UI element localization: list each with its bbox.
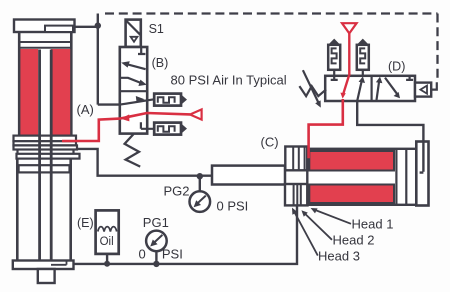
valve B pos1 arrow left <box>125 64 145 69</box>
muffler 4 (valve D right exhaust) <box>357 39 369 76</box>
red wire valve D to cylinder C <box>309 99 343 158</box>
svg-text:0: 0 <box>139 247 146 262</box>
red air inlet line <box>62 113 190 141</box>
cylinder C red chamber lower <box>309 185 394 204</box>
wire tank A to PG2 and cylinder C rod <box>76 149 212 176</box>
valve B blocked port T (bottom right) <box>141 122 154 129</box>
cylinder C gland lines <box>396 149 406 205</box>
svg-text:0 PSI: 0 PSI <box>217 199 249 214</box>
cylinder C body <box>307 149 416 205</box>
bottom return wire <box>74 205 298 264</box>
muffler 2 box <box>154 123 187 135</box>
cylinder C red chamber upper <box>309 151 394 171</box>
wire tank A cap to node <box>73 26 98 28</box>
valve D pilot actuator box <box>415 83 431 97</box>
junction dot PG2 <box>197 173 203 179</box>
svg-text:(A): (A) <box>77 102 94 117</box>
gauge PG1 <box>146 231 167 264</box>
air inlet triangle <box>190 109 202 119</box>
oil reservoir stem <box>106 254 108 264</box>
black wire valve D to cylinder C cap <box>357 101 423 173</box>
tank A red oil fill right <box>51 49 70 136</box>
red supply triangle (valve D) <box>342 23 357 33</box>
valve D pos1 up arrow <box>357 80 362 101</box>
red inlet arrowhead <box>121 114 130 121</box>
valve D divider <box>371 76 373 101</box>
valve B return spring <box>125 134 141 167</box>
oil reservoir E box <box>96 210 119 254</box>
dashed control enclosure <box>105 14 438 81</box>
piston rod (full length) <box>40 50 52 270</box>
svg-text:Head 2: Head 2 <box>333 233 375 248</box>
muffler 3 (valve D left exhaust) <box>328 39 340 76</box>
svg-text:PG1: PG1 <box>143 215 169 230</box>
tank A barrel walls <box>19 32 71 136</box>
svg-text:(E): (E) <box>77 216 94 230</box>
valve D pos2 down arrow <box>385 78 398 96</box>
svg-text:PG2: PG2 <box>164 184 190 199</box>
cylinder C lower head block <box>285 184 308 205</box>
junction dot PG1 <box>153 261 159 267</box>
red supply line into valve D <box>348 33 350 75</box>
valve D adjustment arrow <box>303 70 319 103</box>
gauge PG2 <box>190 176 211 212</box>
tank A / cylinder plate stack <box>14 136 80 159</box>
svg-text:(D): (D) <box>388 60 405 74</box>
cylinder C rod bar <box>212 166 285 185</box>
valve B blocked port T (top right) <box>138 47 145 54</box>
valve S1 solenoid box <box>126 20 141 47</box>
head leader arrow 1 <box>314 209 351 223</box>
svg-text:S1: S1 <box>149 22 164 36</box>
valve B body <box>120 47 147 134</box>
svg-text:Head 1: Head 1 <box>352 217 394 232</box>
valve D blocked port T top-left <box>331 76 338 80</box>
cylinder C end cap <box>416 142 428 206</box>
head leader arrow 3 <box>294 211 318 256</box>
svg-text:PSI: PSI <box>162 247 183 262</box>
tank A interior band lines <box>21 42 71 48</box>
oil junction dot <box>104 261 110 267</box>
red flow through valve D <box>343 76 349 96</box>
tank A red oil fill left <box>20 49 38 136</box>
cylinder C upper head block <box>285 147 307 171</box>
svg-text:(C): (C) <box>261 135 279 150</box>
svg-text:80 PSI Air In Typical: 80 PSI Air In Typical <box>171 73 287 88</box>
valve D pilot wire <box>431 82 437 89</box>
valve D pos2 up arrow <box>377 80 380 100</box>
oil coil squiggle <box>98 227 117 232</box>
node junction dot <box>95 22 101 28</box>
rod end block <box>38 269 55 283</box>
air-oil tank A top cap <box>14 20 75 33</box>
svg-text:(B): (B) <box>152 56 169 70</box>
valve B pos2 arrow to muffler <box>120 99 154 104</box>
head leader arrow 2 <box>304 212 332 239</box>
valve D body <box>325 76 415 101</box>
cylinder A lower barrel walls <box>17 159 70 261</box>
wire node up to dashed corner <box>97 14 99 26</box>
valve B position divider <box>120 90 147 92</box>
svg-text:Head 3: Head 3 <box>318 249 360 264</box>
muffler 1 box <box>154 94 187 106</box>
wire node down to valve B left port <box>98 26 120 105</box>
valve D adjustable spring <box>299 86 326 96</box>
cylinder A piston <box>19 165 70 172</box>
cylinder A bottom plate <box>13 261 74 270</box>
svg-text:Oil: Oil <box>100 236 114 248</box>
valve B pos1 arrow right-down <box>120 78 142 84</box>
valve D blocked port T top-right <box>406 76 413 80</box>
